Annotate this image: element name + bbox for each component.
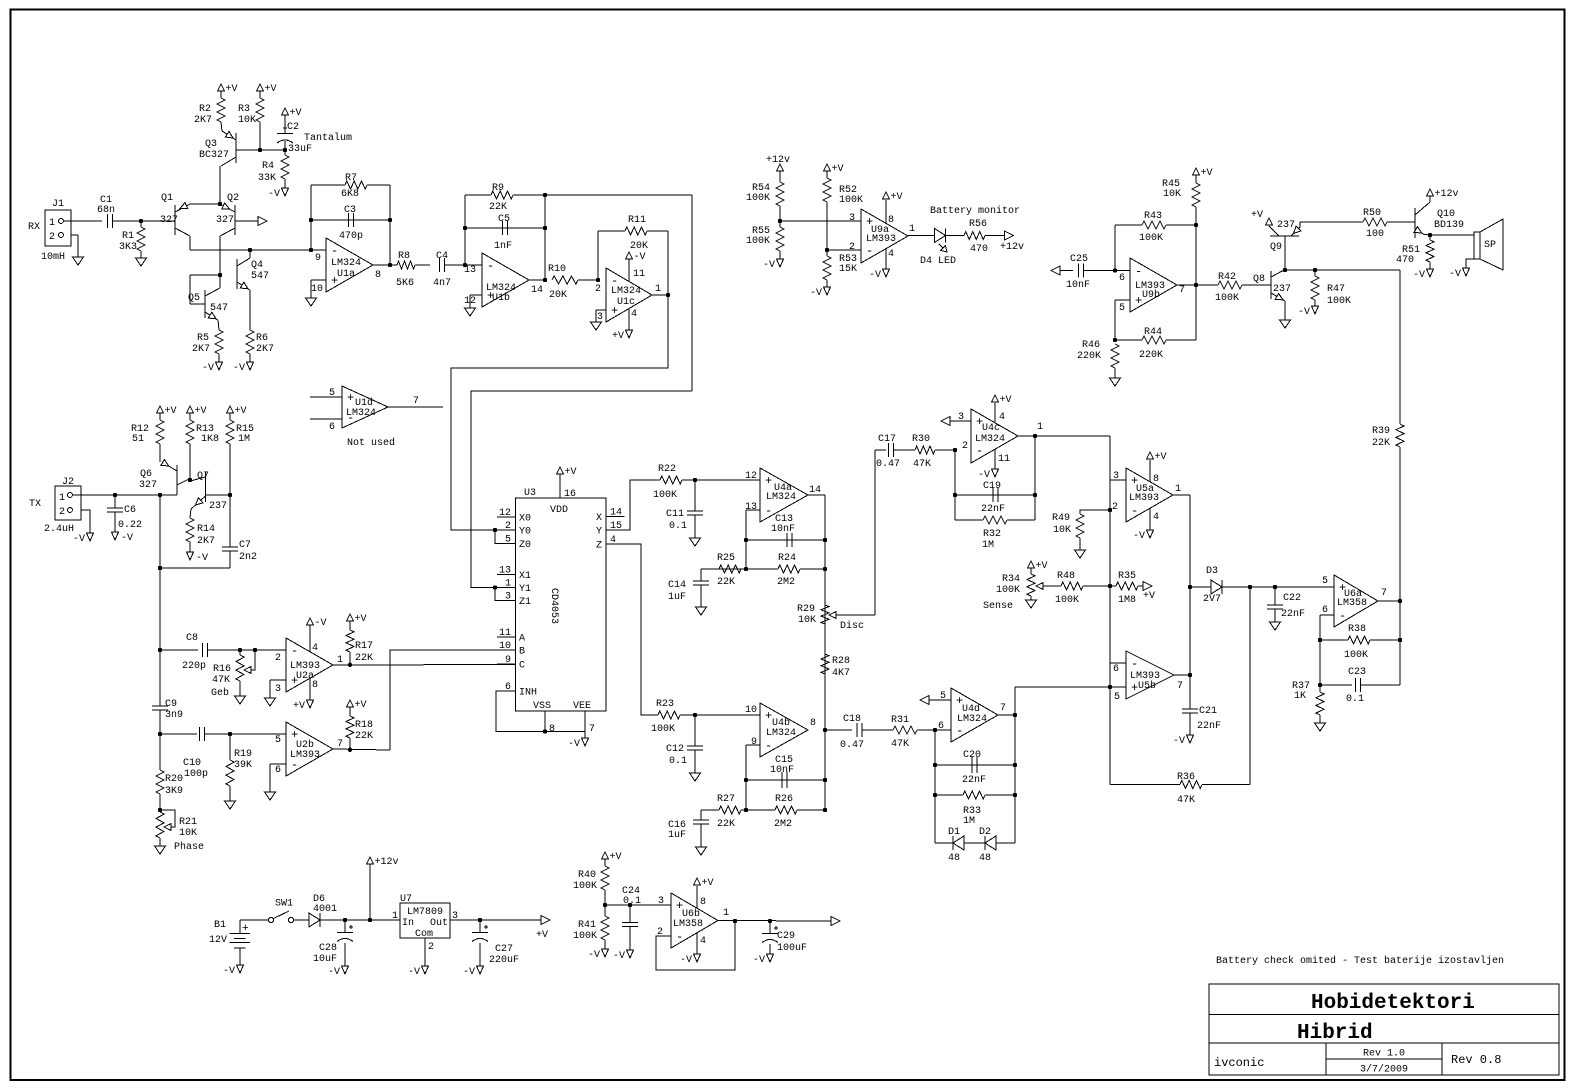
svg-text:R20: R20 [165,774,183,785]
svg-text:7: 7 [1179,285,1185,296]
svg-text:3/7/2009: 3/7/2009 [1360,1064,1408,1076]
svg-text:Q2: Q2 [227,193,239,204]
svg-text:R26: R26 [775,794,793,805]
svg-text:14: 14 [531,285,543,296]
svg-text:48: 48 [979,853,991,864]
svg-text:22nF: 22nF [1281,609,1305,620]
svg-text:R11: R11 [628,215,646,226]
svg-text:100K: 100K [1055,595,1079,606]
svg-text:R44: R44 [1144,327,1162,338]
svg-text:-V: -V [978,470,990,481]
svg-text:Tantalum: Tantalum [304,132,352,144]
svg-text:+12v: +12v [766,155,790,166]
svg-text:+: + [765,474,772,488]
svg-text:RX: RX [28,222,40,233]
svg-text:100K: 100K [1344,650,1368,661]
svg-text:Q9: Q9 [1270,242,1282,253]
svg-text:22nF: 22nF [981,504,1005,515]
svg-text:2: 2 [49,232,55,243]
svg-text:2K7: 2K7 [194,115,212,126]
svg-text:0.1: 0.1 [1346,694,1364,705]
svg-text:VDD: VDD [550,505,568,516]
svg-text:Q3: Q3 [205,139,217,150]
svg-text:237: 237 [209,501,227,512]
svg-text:R2: R2 [199,104,211,115]
svg-text:7: 7 [337,739,343,750]
svg-text:-V: -V [121,533,133,544]
svg-text:3n9: 3n9 [165,710,183,721]
svg-text:22K: 22K [355,653,373,664]
svg-text:33uF: 33uF [288,144,312,155]
svg-text:-: - [1131,657,1138,671]
svg-text:3: 3 [849,213,855,224]
svg-text:2.4uH: 2.4uH [44,524,74,535]
svg-text:100K: 100K [573,881,597,892]
svg-text:R23: R23 [656,699,674,710]
svg-text:R42: R42 [1218,272,1236,283]
svg-text:2V7: 2V7 [1203,594,1221,605]
svg-text:47K: 47K [891,739,909,750]
svg-text:-V: -V [328,967,340,978]
svg-text:Z: Z [596,541,602,552]
svg-text:R17: R17 [355,641,373,652]
svg-text:+V: +V [355,700,367,711]
svg-text:220uF: 220uF [489,955,519,966]
svg-text:10K: 10K [179,828,197,839]
svg-text:1uF: 1uF [668,592,686,603]
svg-text:INH: INH [519,688,537,699]
svg-text:10nF: 10nF [771,524,795,535]
svg-text:1: 1 [392,911,398,922]
svg-text:R30: R30 [912,434,930,445]
svg-text:D1: D1 [948,827,960,838]
svg-text:11: 11 [499,628,511,639]
svg-text:+V: +V [702,878,714,889]
svg-text:10uF: 10uF [313,954,337,965]
svg-text:1: 1 [49,218,55,229]
svg-text:10nF: 10nF [770,765,794,776]
svg-text:220p: 220p [182,661,206,672]
svg-text:R14: R14 [197,524,215,535]
svg-text:SW1: SW1 [275,899,293,910]
svg-text:LM324: LM324 [346,408,376,419]
svg-text:Phase: Phase [174,841,204,853]
svg-text:10K: 10K [1053,525,1071,536]
svg-text:-V: -V [202,363,214,374]
svg-text:5: 5 [1322,576,1328,587]
svg-text:Battery check omited - Test ba: Battery check omited - Test baterije izo… [1216,955,1504,967]
svg-text:5: 5 [505,535,511,546]
svg-text:327: 327 [216,215,234,226]
svg-text:8: 8 [312,680,318,691]
svg-text:2: 2 [59,507,65,518]
svg-text:X: X [596,513,602,524]
svg-text:1: 1 [655,284,661,295]
svg-text:22nF: 22nF [962,775,986,786]
svg-text:C18: C18 [843,714,861,725]
svg-text:TX: TX [29,499,41,510]
svg-text:1M8: 1M8 [1118,595,1136,606]
svg-text:Hibrid: Hibrid [1297,1022,1373,1045]
svg-text:Rev 1.0: Rev 1.0 [1363,1049,1405,1060]
svg-text:10nF: 10nF [1066,280,1090,291]
svg-text:-V: -V [753,955,765,966]
svg-text:-V: -V [613,951,625,962]
svg-text:U7: U7 [400,894,412,905]
svg-text:100K: 100K [1139,233,1163,244]
svg-text:100K: 100K [839,195,863,206]
svg-text:LM324: LM324 [957,714,987,725]
svg-text:0.1: 0.1 [623,896,641,907]
svg-text:X1: X1 [519,571,531,582]
svg-text:C29: C29 [777,931,795,942]
svg-text:+V: +V [293,701,305,712]
svg-text:100K: 100K [651,724,675,735]
svg-text:1: 1 [1175,484,1181,495]
svg-text:4K7: 4K7 [832,668,850,679]
svg-text:22K: 22K [717,577,735,588]
svg-text:1K: 1K [1294,691,1306,702]
svg-text:-V: -V [1413,270,1425,281]
svg-text:47K: 47K [212,675,230,686]
svg-text:Y1: Y1 [519,584,531,595]
svg-text:C17: C17 [878,434,896,445]
svg-text:-V: -V [268,189,280,200]
svg-text:5: 5 [1119,303,1125,314]
svg-text:U1c: U1c [617,297,635,308]
svg-text:547: 547 [210,303,228,314]
svg-text:Y0: Y0 [519,527,531,538]
svg-text:R24: R24 [778,553,796,564]
svg-text:6K8: 6K8 [341,189,359,200]
svg-text:6: 6 [1119,273,1125,284]
svg-text:R19: R19 [234,749,252,760]
svg-text:13: 13 [499,566,511,577]
svg-text:-V: -V [763,260,775,271]
svg-text:12: 12 [499,508,511,519]
svg-text:R36: R36 [1177,772,1195,783]
svg-text:LM393: LM393 [290,750,320,761]
svg-text:-V: -V [1449,269,1461,280]
svg-text:20K: 20K [630,241,648,252]
svg-text:+12v: +12v [1000,242,1024,253]
svg-text:BD139: BD139 [1434,220,1464,231]
svg-text:-V: -V [634,252,646,263]
svg-text:470: 470 [970,244,988,255]
svg-text:1: 1 [723,908,729,919]
svg-text:100K: 100K [653,490,677,501]
svg-text:2K7: 2K7 [197,536,215,547]
svg-text:6: 6 [1113,664,1119,675]
svg-text:R4: R4 [262,161,274,172]
svg-text:LM324: LM324 [766,492,796,503]
svg-text:2M2: 2M2 [774,819,792,830]
svg-text:+V: +V [565,467,577,478]
svg-text:J1: J1 [52,199,64,210]
svg-text:+V: +V [536,930,548,941]
svg-text:100K: 100K [996,585,1020,596]
svg-text:12: 12 [745,471,757,482]
svg-text:C21: C21 [1199,706,1217,717]
svg-text:Q1: Q1 [161,193,173,204]
svg-text:7: 7 [413,396,419,407]
svg-text:-: - [976,444,983,458]
svg-text:C23: C23 [1348,667,1366,678]
svg-text:470p: 470p [339,231,363,242]
svg-text:X0: X0 [519,514,531,525]
svg-text:R22: R22 [658,464,676,475]
svg-text:R21: R21 [179,817,197,828]
svg-text:R34: R34 [1002,574,1020,585]
svg-text:15K: 15K [839,264,857,275]
svg-text:22K: 22K [355,731,373,742]
svg-text:-V: -V [233,363,245,374]
svg-text:Com: Com [415,929,433,940]
svg-text:10K: 10K [1163,189,1181,200]
svg-text:C12: C12 [666,744,684,755]
svg-text:R16: R16 [213,664,231,675]
svg-text:Q6: Q6 [140,469,152,480]
svg-text:8: 8 [888,215,894,226]
svg-text:100p: 100p [184,769,208,780]
svg-text:-: - [331,244,338,258]
svg-text:+V: +V [1143,591,1155,602]
svg-text:5: 5 [329,388,335,399]
svg-text:Q8: Q8 [1253,274,1265,285]
svg-text:Out: Out [430,918,448,929]
svg-text:1M: 1M [963,816,975,827]
svg-text:LM393: LM393 [866,234,896,245]
svg-text:47K: 47K [1177,795,1195,806]
svg-text:Disc: Disc [840,620,864,632]
svg-text:2K7: 2K7 [256,344,274,355]
svg-text:4: 4 [631,309,637,320]
svg-text:U3: U3 [524,488,536,499]
svg-text:+V: +V [1251,210,1263,221]
svg-text:R48: R48 [1057,571,1075,582]
svg-text:R40: R40 [578,870,596,881]
svg-text:C8: C8 [186,633,198,644]
svg-text:Hobidetektori: Hobidetektori [1311,992,1475,1015]
svg-text:LM358: LM358 [673,919,703,930]
svg-text:+V: +V [355,614,367,625]
svg-text:+12v: +12v [1435,189,1459,200]
svg-text:C10: C10 [183,758,201,769]
svg-text:Not used: Not used [347,437,395,449]
svg-text:LM358: LM358 [1337,598,1367,609]
svg-text:+V: +V [891,192,903,203]
svg-text:R32: R32 [983,529,1001,540]
svg-text:3: 3 [1113,471,1119,482]
svg-text:R9: R9 [492,183,504,194]
svg-text:-: - [291,644,298,658]
svg-text:R29: R29 [797,604,815,615]
svg-text:0.47: 0.47 [840,740,864,751]
svg-text:237: 237 [1277,220,1295,231]
svg-text:5K6: 5K6 [396,278,414,289]
svg-text:4n7: 4n7 [433,278,451,289]
svg-text:-V: -V [869,270,881,281]
svg-text:SP: SP [1484,240,1496,251]
svg-text:327: 327 [139,480,157,491]
svg-text:10: 10 [745,705,757,716]
svg-text:C28: C28 [319,943,337,954]
svg-text:R8: R8 [398,251,410,262]
svg-text:2: 2 [962,441,968,452]
svg-text:33K: 33K [258,173,276,184]
svg-text:D2: D2 [979,827,991,838]
svg-text:11: 11 [633,269,645,280]
svg-text:C2: C2 [287,122,299,133]
svg-text:C25: C25 [1070,254,1088,265]
svg-text:R7: R7 [345,173,357,184]
svg-text:C19: C19 [983,481,1001,492]
svg-text:-V: -V [1133,531,1145,542]
svg-text:+V: +V [832,164,844,175]
svg-text:Z1: Z1 [519,597,531,608]
svg-text:+: + [242,923,249,935]
svg-text:D4 LED: D4 LED [920,256,956,267]
svg-text:2n2: 2n2 [239,552,257,563]
svg-text:+V: +V [1155,452,1167,463]
svg-text:U4c: U4c [982,423,1000,434]
svg-text:3: 3 [505,592,511,603]
svg-text:Rev 0.8: Rev 0.8 [1451,1053,1501,1067]
svg-text:-V: -V [680,955,692,966]
svg-text:-: - [956,724,963,738]
svg-text:-: - [1135,265,1142,279]
svg-text:C27: C27 [495,944,513,955]
svg-text:1: 1 [337,655,343,666]
svg-text:2: 2 [428,942,434,953]
svg-text:1: 1 [909,224,915,235]
svg-text:Z0: Z0 [519,540,531,551]
svg-text:2M2: 2M2 [777,577,795,588]
svg-text:3K9: 3K9 [165,786,183,797]
svg-text:-V: -V [810,288,822,299]
svg-text:LM324: LM324 [331,258,361,269]
svg-text:D3: D3 [1206,566,1218,577]
svg-text:2: 2 [595,284,601,295]
svg-text:CD4053: CD4053 [548,588,559,624]
svg-text:R18: R18 [355,720,373,731]
svg-text:VSS: VSS [533,701,551,712]
svg-text:R25: R25 [717,553,735,564]
svg-text:7: 7 [1381,588,1387,599]
svg-text:R49: R49 [1052,513,1070,524]
svg-text:Battery monitor: Battery monitor [930,205,1020,217]
svg-text:2: 2 [275,653,281,664]
svg-text:LM393: LM393 [1129,493,1159,504]
svg-text:22K: 22K [1372,438,1390,449]
svg-text:6: 6 [275,765,281,776]
svg-text:+V: +V [1201,168,1213,179]
svg-text:C: C [519,661,525,672]
svg-text:10K: 10K [238,115,256,126]
svg-text:Q10: Q10 [1437,209,1455,220]
svg-text:10K: 10K [798,615,816,626]
svg-text:R56: R56 [969,219,987,230]
svg-text:-: - [765,739,772,753]
svg-text:R43: R43 [1144,211,1162,222]
svg-text:1: 1 [1037,422,1043,433]
svg-text:220K: 220K [1139,350,1163,361]
svg-text:R39: R39 [1372,426,1390,437]
svg-text:0.1: 0.1 [669,521,687,532]
svg-text:6: 6 [1322,605,1328,616]
svg-text:1M: 1M [982,540,994,551]
svg-text:-: - [1339,609,1346,623]
svg-text:8: 8 [700,897,706,908]
svg-text:1M: 1M [238,434,250,445]
svg-text:C7: C7 [239,540,251,551]
svg-text:C14: C14 [668,580,686,591]
svg-text:-: - [866,244,873,258]
svg-text:-V: -V [568,739,580,750]
svg-text:Geb: Geb [211,687,229,699]
svg-text:U5b: U5b [1138,680,1156,692]
svg-text:R3: R3 [238,104,250,115]
svg-text:+V: +V [235,406,247,417]
svg-text:220K: 220K [1077,351,1101,362]
svg-text:-V: -V [196,553,208,564]
svg-text:+V: +V [610,852,622,863]
svg-text:13: 13 [464,265,476,276]
svg-text:+V: +V [165,406,177,417]
svg-text:C22: C22 [1283,593,1301,604]
svg-text:-: - [1131,504,1138,518]
svg-text:0.1: 0.1 [669,756,687,767]
svg-text:68n: 68n [97,205,115,216]
svg-text:1nF: 1nF [494,241,512,252]
svg-text:5: 5 [275,735,281,746]
svg-text:R5: R5 [197,333,209,344]
svg-text:1K8: 1K8 [201,434,219,445]
svg-text:R6: R6 [256,333,268,344]
svg-text:7: 7 [1177,681,1183,692]
svg-text:-V: -V [223,966,235,977]
svg-text:B1: B1 [214,920,226,931]
svg-text:15: 15 [610,521,622,532]
svg-text:9: 9 [751,737,757,748]
svg-text:8: 8 [549,724,555,735]
svg-text:BC327: BC327 [199,150,229,161]
svg-text:8: 8 [810,718,816,729]
svg-text:R27: R27 [717,794,735,805]
svg-text:R41: R41 [578,920,596,931]
svg-text:Sense: Sense [983,601,1013,612]
svg-text:+12v: +12v [375,857,399,868]
svg-text:J2: J2 [62,477,74,488]
svg-text:3K3: 3K3 [119,242,137,253]
svg-text:C20: C20 [963,750,981,761]
svg-text:3: 3 [597,312,603,323]
svg-text:B: B [519,647,525,658]
svg-text:+V: +V [612,331,624,342]
svg-text:R10: R10 [548,264,566,275]
svg-text:0.22: 0.22 [118,520,142,531]
svg-text:327: 327 [160,215,178,226]
svg-text:100: 100 [1366,229,1384,240]
svg-text:4: 4 [700,936,706,947]
svg-text:R47: R47 [1327,284,1345,295]
svg-text:1uF: 1uF [668,830,686,841]
svg-text:+V: +V [195,406,207,417]
svg-text:100K: 100K [573,931,597,942]
svg-text:-V: -V [1298,307,1310,318]
svg-text:-V: -V [73,534,85,545]
svg-text:8: 8 [375,270,381,281]
